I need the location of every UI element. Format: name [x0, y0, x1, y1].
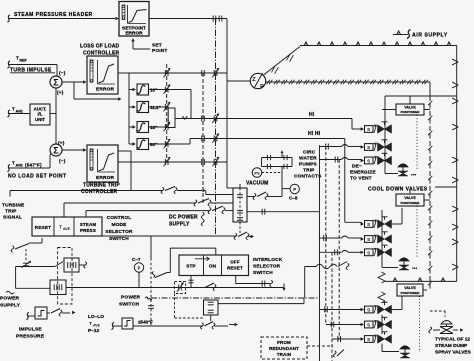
svg-text:Z: Z	[252, 77, 256, 83]
svg-text:ENERGIZE: ENERGIZE	[350, 170, 376, 176]
svg-text:SWITCH: SWITCH	[109, 236, 129, 242]
svg-text:VACUUM: VACUUM	[246, 181, 268, 187]
svg-text:PS: PS	[254, 170, 260, 175]
svg-text:S: S	[367, 337, 370, 342]
svg-text:(−): (−)	[59, 159, 66, 165]
svg-text:10": 10"	[150, 88, 157, 93]
svg-text:ON: ON	[209, 264, 217, 269]
svg-text:TO VENT: TO VENT	[350, 176, 372, 182]
svg-text:TYPICAL OF 12: TYPICAL OF 12	[435, 337, 470, 343]
svg-text:STEAM DUMP: STEAM DUMP	[435, 343, 468, 349]
svg-text:S: S	[367, 159, 370, 164]
svg-text:18": 18"	[150, 125, 157, 130]
svg-text:C–7: C–7	[132, 257, 141, 262]
svg-text:STEAM PRESSURE HEADER: STEAM PRESSURE HEADER	[14, 12, 93, 18]
svg-text:S: S	[367, 222, 370, 227]
svg-text:RESET: RESET	[227, 266, 243, 271]
svg-text:INTERLOCK: INTERLOCK	[253, 257, 283, 263]
svg-text:DC POWER: DC POWER	[169, 215, 198, 221]
svg-text:POSITIONER: POSITIONER	[400, 201, 420, 205]
svg-text:•••: •••	[412, 266, 418, 272]
svg-text:≤540°F: ≤540°F	[138, 320, 153, 325]
svg-text:SELECTOR: SELECTOR	[105, 229, 133, 235]
svg-text:T: T	[59, 225, 62, 230]
svg-text:SWITCH: SWITCH	[119, 302, 140, 308]
svg-text:RESET: RESET	[35, 225, 51, 230]
svg-text:(+): (+)	[58, 141, 65, 147]
svg-text:STEAM: STEAM	[80, 222, 97, 227]
svg-text:CONTROLLER: CONTROLLER	[81, 189, 117, 195]
svg-text:VALVE: VALVE	[404, 106, 416, 110]
svg-text:TURBINE: TURBINE	[2, 203, 25, 209]
svg-text:CONTACTS: CONTACTS	[294, 174, 322, 180]
svg-text:P–12: P–12	[88, 328, 100, 334]
svg-text:AVE: AVE	[16, 110, 24, 114]
svg-text:(547°F): (547°F)	[25, 163, 42, 168]
svg-text:AVE: AVE	[63, 227, 71, 231]
svg-text:AIR SUPPLY: AIR SUPPLY	[412, 33, 448, 39]
svg-text:TRIP: TRIP	[303, 168, 315, 174]
svg-text:ERROR: ERROR	[125, 31, 143, 37]
svg-text:S: S	[367, 308, 370, 313]
svg-text:HI HI: HI HI	[308, 131, 321, 137]
svg-text:POWER: POWER	[0, 296, 20, 302]
svg-text:T: T	[89, 321, 92, 326]
svg-text:SPRAY VALVES: SPRAY VALVES	[435, 350, 472, 356]
svg-text:P: P	[260, 84, 264, 90]
svg-text:POINT: POINT	[152, 48, 167, 54]
svg-text:CONTROL: CONTROL	[107, 215, 132, 221]
svg-text:REF: REF	[20, 59, 28, 63]
svg-text:POSITIONER: POSITIONER	[400, 291, 420, 295]
svg-text:PRESSURE: PRESSURE	[16, 334, 45, 340]
svg-text:FROM: FROM	[277, 340, 291, 345]
svg-text:SELECTOR: SELECTOR	[253, 264, 281, 270]
svg-text:SUPPLY: SUPPLY	[169, 222, 190, 228]
svg-text:COOL DOWN VALVES: COOL DOWN VALVES	[368, 187, 428, 193]
svg-text:90": 90"	[150, 142, 157, 147]
svg-text:ERROR: ERROR	[96, 87, 114, 93]
svg-text:AVE: AVE	[16, 164, 24, 168]
svg-text:SET: SET	[152, 43, 162, 49]
svg-text:Σ: Σ	[53, 77, 59, 87]
svg-text:(+): (+)	[57, 90, 64, 96]
svg-text:P: P	[138, 266, 141, 271]
svg-text:S: S	[367, 237, 370, 242]
svg-text:SWITCH: SWITCH	[253, 270, 273, 276]
svg-text:STP: STP	[186, 264, 196, 269]
svg-text:LOSS OF LOAD: LOSS OF LOAD	[80, 44, 120, 50]
svg-text:LO–LO: LO–LO	[88, 314, 104, 320]
svg-text:IMPULSE: IMPULSE	[19, 327, 42, 333]
svg-text:SIGNAL: SIGNAL	[3, 215, 22, 221]
svg-text:TURBINE TRIP: TURBINE TRIP	[83, 183, 120, 189]
svg-text:ERROR: ERROR	[96, 175, 114, 181]
svg-text:I/L: I/L	[37, 112, 42, 117]
svg-text:S: S	[367, 127, 370, 132]
svg-text:SUPPLY: SUPPLY	[0, 303, 21, 309]
svg-text:POWER: POWER	[121, 295, 141, 301]
svg-text:POSITIONER: POSITIONER	[400, 110, 420, 114]
svg-text:VALVE: VALVE	[404, 196, 416, 200]
svg-text:•••: •••	[411, 173, 417, 179]
svg-text:UNIT: UNIT	[35, 117, 45, 122]
svg-text:REDUNDANT: REDUNDANT	[269, 346, 299, 351]
svg-text:WATER: WATER	[299, 156, 317, 162]
svg-text:S: S	[367, 323, 370, 328]
svg-text:OFF: OFF	[230, 260, 240, 265]
svg-text:CIRC: CIRC	[303, 150, 316, 156]
svg-text:PRESS: PRESS	[80, 228, 96, 233]
svg-text:PUMPS: PUMPS	[299, 162, 317, 168]
svg-text:(−): (−)	[59, 71, 66, 77]
svg-text:S: S	[367, 250, 370, 255]
svg-text:Σ: Σ	[53, 145, 59, 155]
svg-text:VALVE: VALVE	[404, 286, 416, 290]
svg-text:11.2": 11.2"	[150, 105, 161, 110]
svg-text:DE−: DE−	[352, 164, 362, 170]
svg-text:NO LOAD SET POINT: NO LOAD SET POINT	[8, 174, 67, 180]
svg-text:TRIP: TRIP	[5, 209, 17, 215]
svg-text:TRAIN: TRAIN	[277, 352, 292, 357]
svg-text:C–8: C–8	[289, 196, 298, 201]
svg-text:MODE: MODE	[112, 222, 128, 228]
svg-text:S: S	[367, 145, 370, 150]
svg-text:HI: HI	[309, 112, 315, 118]
svg-text:AVE: AVE	[93, 324, 101, 328]
svg-text:P: P	[293, 187, 296, 192]
